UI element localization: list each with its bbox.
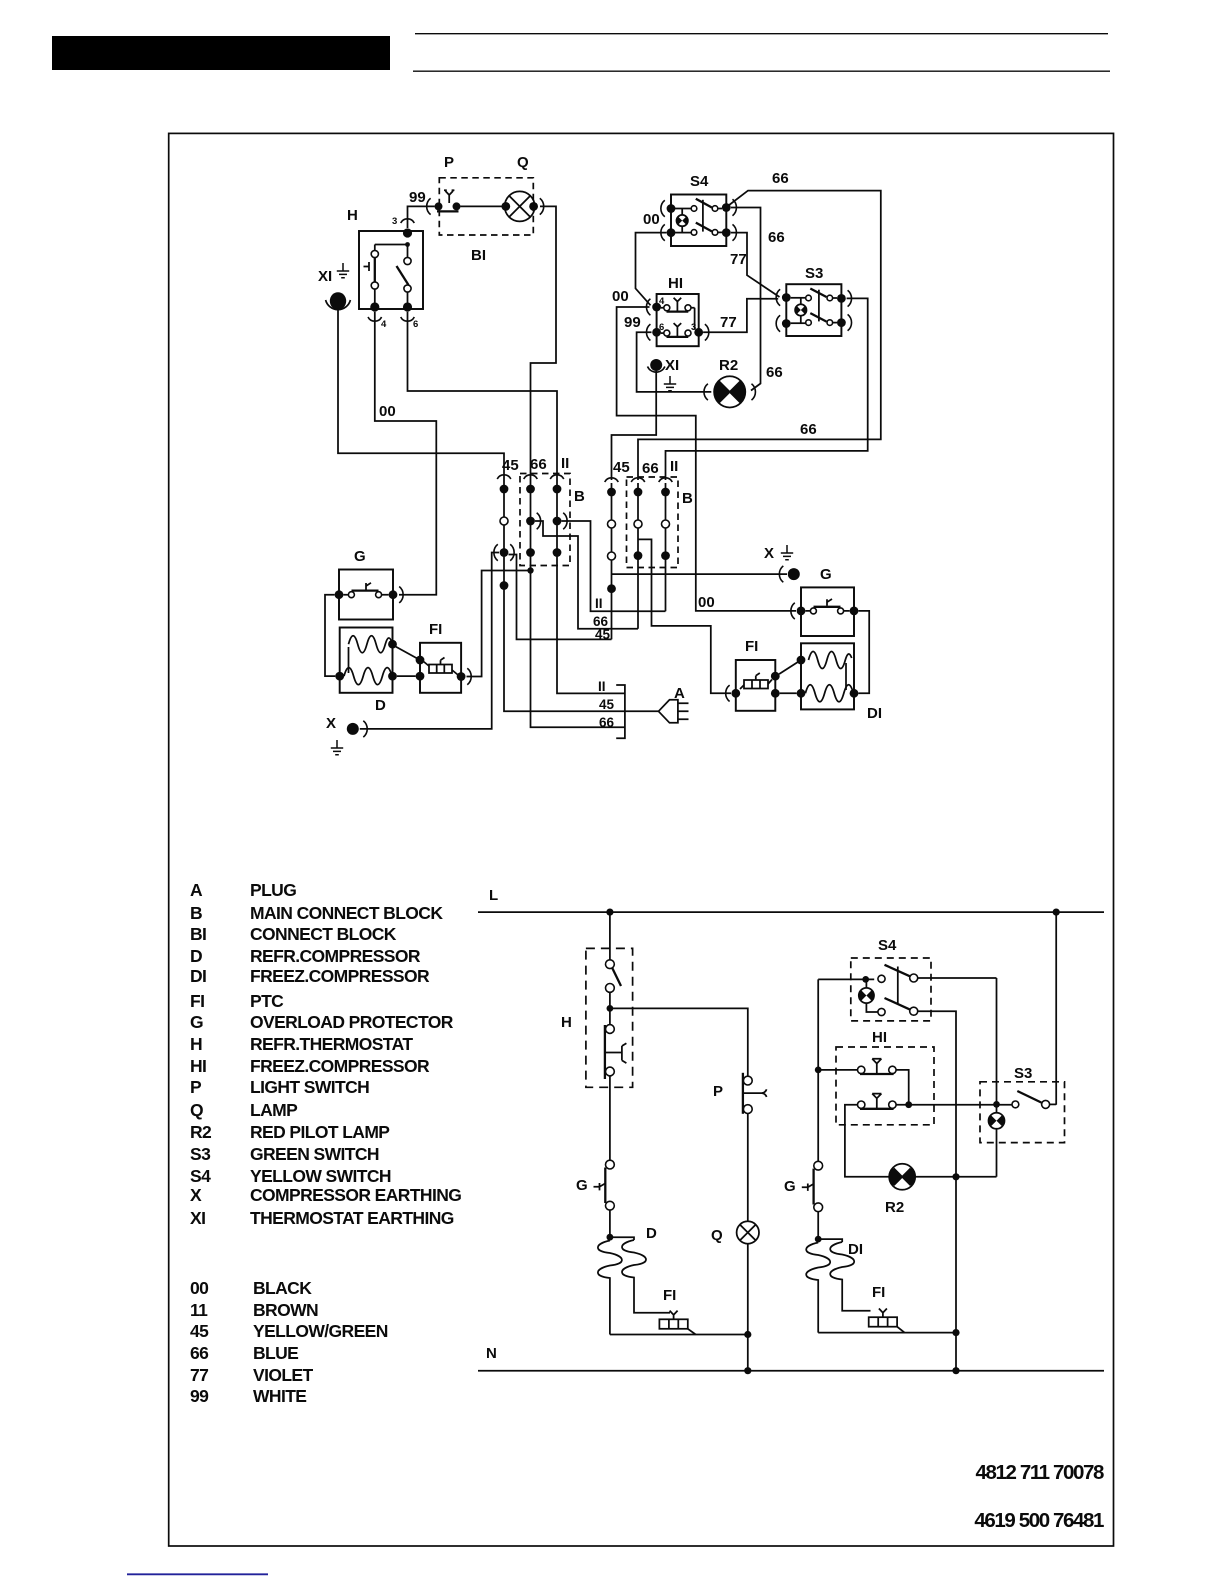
svg-text:66: 66 xyxy=(599,715,615,730)
svg-text:P: P xyxy=(190,1077,202,1097)
svg-text:77: 77 xyxy=(730,251,747,268)
svg-text:4619 500 76481: 4619 500 76481 xyxy=(974,1509,1104,1532)
svg-text:99: 99 xyxy=(409,189,426,206)
thermostat H dashed box xyxy=(586,948,633,1087)
main connect block B left dashed box xyxy=(520,474,570,566)
svg-text:R2: R2 xyxy=(719,357,738,374)
wire 99 HI to R2 xyxy=(637,332,712,392)
svg-text:REFR.THERMOSTAT: REFR.THERMOSTAT xyxy=(250,1034,413,1054)
lamp Q xyxy=(505,191,535,221)
node L right xyxy=(1053,909,1060,916)
wire S3 to 11R column xyxy=(666,298,868,480)
svg-text:FI: FI xyxy=(190,991,204,1011)
svg-text:L: L xyxy=(489,887,498,904)
HI contact bottom xyxy=(664,330,670,336)
66R column xyxy=(631,478,645,482)
svg-text:99: 99 xyxy=(190,1386,209,1406)
svg-text:X: X xyxy=(764,545,774,562)
svg-text:BROWN: BROWN xyxy=(253,1300,318,1320)
S4 pilot lamp xyxy=(859,988,874,1003)
svg-text:BI: BI xyxy=(190,924,206,944)
svg-text:00: 00 xyxy=(643,211,660,228)
FI right PTC element xyxy=(744,680,768,689)
S3 switch xyxy=(1012,1101,1019,1108)
svg-text:REFR.COMPRESSOR: REFR.COMPRESSOR xyxy=(250,946,421,966)
svg-text:THERMOSTAT EARTHING: THERMOSTAT EARTHING xyxy=(250,1208,454,1228)
svg-text:45: 45 xyxy=(613,459,630,476)
HI contact bottom xyxy=(858,1101,865,1108)
svg-text:S3: S3 xyxy=(1014,1065,1032,1082)
svg-text:FI: FI xyxy=(429,621,442,638)
wire H3 to P xyxy=(408,206,435,228)
collector wire to N right xyxy=(818,1332,956,1334)
freezer thermostat HI box xyxy=(657,294,699,346)
S3 terminals xyxy=(782,293,791,302)
svg-text:PLUG: PLUG xyxy=(250,880,296,900)
node P tap xyxy=(607,1005,614,1012)
svg-text:66: 66 xyxy=(772,170,789,187)
svg-text:77: 77 xyxy=(190,1365,208,1385)
light switch P xyxy=(435,202,443,210)
right branch from L xyxy=(1055,912,1057,1105)
H contact lower xyxy=(609,1008,611,1024)
svg-text:H: H xyxy=(561,1014,572,1031)
S4 terminals xyxy=(667,204,676,213)
wire 66R branch to PTC FI right xyxy=(638,539,731,693)
overload protector G left box xyxy=(339,570,393,620)
node D top xyxy=(607,1234,614,1241)
svg-text:Q: Q xyxy=(190,1100,203,1120)
svg-text:B: B xyxy=(190,903,202,923)
S3 pilot lamp xyxy=(989,1113,1005,1129)
wire XI to 45 left column xyxy=(338,310,504,480)
svg-text:66: 66 xyxy=(190,1343,209,1363)
svg-text:DI: DI xyxy=(190,966,206,986)
svg-text:LAMP: LAMP xyxy=(250,1100,298,1120)
PTC FI left box xyxy=(420,643,461,693)
svg-text:00: 00 xyxy=(612,288,629,305)
H terminal 6 xyxy=(403,302,412,311)
svg-text:FREEZ.COMPRESSOR: FREEZ.COMPRESSOR xyxy=(250,1056,430,1076)
svg-text:H: H xyxy=(347,207,358,224)
HI contact top xyxy=(664,305,670,311)
svg-text:66: 66 xyxy=(766,364,783,381)
svg-text:YELLOW SWITCH: YELLOW SWITCH xyxy=(250,1166,391,1186)
svg-text:OVERLOAD PROTECTOR: OVERLOAD PROTECTOR xyxy=(250,1012,454,1032)
svg-text:II: II xyxy=(595,596,603,611)
FI left PTC element xyxy=(429,665,452,674)
S3 switch bottom xyxy=(791,322,806,324)
PTC FI right box xyxy=(736,660,776,711)
collector wire to N left xyxy=(610,1334,748,1336)
red pilot lamp R2 xyxy=(714,376,745,407)
svg-text:XI: XI xyxy=(318,268,332,285)
overload protector G right box xyxy=(801,587,854,636)
svg-text:45: 45 xyxy=(502,457,519,474)
svg-text:G: G xyxy=(784,1178,796,1195)
svg-text:G: G xyxy=(190,1012,203,1032)
svg-text:4812 711 70078: 4812 711 70078 xyxy=(976,1461,1104,1484)
svg-text:FI: FI xyxy=(663,1287,676,1304)
svg-text:HI: HI xyxy=(872,1029,887,1046)
DI winding xyxy=(845,663,847,690)
svg-text:VIOLET: VIOLET xyxy=(253,1365,314,1385)
svg-text:11: 11 xyxy=(190,1300,208,1320)
svg-text:H: H xyxy=(190,1034,202,1054)
wire 66L to PTC FI left xyxy=(467,571,531,677)
node N left xyxy=(744,1367,751,1374)
svg-text:DI: DI xyxy=(848,1241,863,1258)
svg-text:S3: S3 xyxy=(805,265,823,282)
svg-text:Q: Q xyxy=(711,1227,723,1244)
wire 66 S4 to pilot lamp R2 xyxy=(731,208,761,391)
svg-text:S4: S4 xyxy=(690,173,709,190)
H internal contact left xyxy=(371,250,378,257)
H terminal 3 xyxy=(403,228,412,237)
svg-text:II: II xyxy=(670,458,678,475)
45L column xyxy=(497,475,511,479)
svg-text:PTC: PTC xyxy=(250,991,284,1011)
svg-text:B: B xyxy=(682,490,693,507)
svg-text:S4: S4 xyxy=(190,1166,211,1186)
line N xyxy=(478,1370,1104,1372)
wire 00 H4 to overload G xyxy=(375,312,437,595)
svg-text:FI: FI xyxy=(745,638,758,655)
yellow switch S4 dashed box xyxy=(851,958,931,1021)
svg-text:MAIN CONNECT BLOCK: MAIN CONNECT BLOCK xyxy=(250,903,443,923)
node DI top xyxy=(815,1236,822,1243)
thermostat H box xyxy=(359,231,423,309)
svg-text:HI: HI xyxy=(190,1056,206,1076)
wire 77 S4 to S3 xyxy=(731,233,780,297)
wire Q to 66 left column xyxy=(531,206,557,480)
svg-text:45: 45 xyxy=(595,627,611,642)
wire X left to 45L terminal xyxy=(360,553,499,729)
S4 switch top xyxy=(878,975,885,982)
svg-text:P: P xyxy=(444,154,454,171)
svg-text:77: 77 xyxy=(720,314,737,331)
footer blue line xyxy=(127,1573,268,1575)
svg-text:66: 66 xyxy=(800,421,817,438)
svg-text:GREEN SWITCH: GREEN SWITCH xyxy=(250,1144,379,1164)
thermostat earthing XI right xyxy=(650,359,662,371)
svg-text:Q: Q xyxy=(517,154,529,171)
svg-text:R2: R2 xyxy=(190,1122,212,1142)
svg-text:D: D xyxy=(646,1225,657,1242)
svg-text:RED PILOT LAMP: RED PILOT LAMP xyxy=(250,1122,390,1142)
svg-text:COMPRESSOR EARTHING: COMPRESSOR EARTHING xyxy=(250,1185,461,1205)
svg-text:FI: FI xyxy=(872,1284,885,1301)
S4 feed wire xyxy=(818,978,874,980)
svg-text:II: II xyxy=(598,679,606,694)
svg-text:G: G xyxy=(354,548,366,565)
svg-text:X: X xyxy=(190,1185,202,1205)
wire G left to compressor D xyxy=(325,595,335,676)
svg-text:A: A xyxy=(190,880,203,900)
svg-text:B: B xyxy=(574,488,585,505)
S4 switch bottom xyxy=(878,1008,885,1015)
svg-text:XI: XI xyxy=(665,357,679,374)
svg-text:G: G xyxy=(820,566,832,583)
freezer compressor DI box xyxy=(801,643,854,709)
diagram frame xyxy=(169,133,1114,1546)
66L column xyxy=(524,475,538,479)
svg-text:DI: DI xyxy=(867,705,882,722)
wire D to FI left xyxy=(396,647,421,677)
H switch upper xyxy=(609,912,611,960)
S3 pilot lamp xyxy=(795,304,806,315)
freezer thermostat HI dashed box xyxy=(836,1047,934,1125)
H terminal 4 xyxy=(370,302,379,311)
left vertical feed xyxy=(817,979,819,1161)
light switch P branch xyxy=(610,1008,748,1076)
svg-text:S3: S3 xyxy=(190,1144,211,1164)
svg-text:XI: XI xyxy=(190,1208,205,1228)
svg-text:LIGHT SWITCH: LIGHT SWITCH xyxy=(250,1077,369,1097)
connect block BI dashed box xyxy=(439,178,533,235)
svg-text:66: 66 xyxy=(768,229,785,246)
svg-text:45: 45 xyxy=(190,1321,209,1341)
svg-text:S4: S4 xyxy=(878,937,897,954)
wire 66 S4 to right bus and 66R column xyxy=(638,191,881,480)
node L left xyxy=(606,909,613,916)
svg-text:00: 00 xyxy=(379,403,396,420)
svg-text:G: G xyxy=(576,1177,588,1194)
wire P to Q xyxy=(461,205,506,207)
svg-text:3: 3 xyxy=(392,216,397,227)
svg-text:D: D xyxy=(375,697,386,714)
svg-text:R2: R2 xyxy=(885,1199,904,1216)
header rule 2 xyxy=(413,70,1110,72)
svg-text:FREEZ.COMPRESSOR: FREEZ.COMPRESSOR xyxy=(250,966,430,986)
H internal switch right xyxy=(407,245,409,258)
wire jog 11L to 11R xyxy=(561,521,665,611)
svg-text:45: 45 xyxy=(599,697,615,712)
S4 switch bottom xyxy=(675,232,691,234)
D winding xyxy=(348,647,350,673)
cable bracket to plug xyxy=(616,685,625,738)
HI terminals xyxy=(652,303,661,312)
wire X right to 45R xyxy=(612,573,788,575)
11L column xyxy=(550,475,564,479)
wire jog 66L to 66R xyxy=(535,521,638,629)
green switch S3 dashed box xyxy=(980,1082,1065,1143)
svg-text:66: 66 xyxy=(642,460,659,477)
svg-text:BLUE: BLUE xyxy=(253,1343,298,1363)
S3 switch top xyxy=(791,297,806,299)
svg-text:N: N xyxy=(486,1345,497,1362)
line L xyxy=(478,911,1104,913)
svg-text:II: II xyxy=(561,455,569,472)
yellow switch S4 box xyxy=(671,195,726,247)
wire G right to freezer compressor DI xyxy=(858,611,869,693)
wire XI right to 45R column xyxy=(612,371,657,480)
svg-text:X: X xyxy=(326,715,336,732)
11R column xyxy=(659,478,673,482)
wire 00 HI to right overload G xyxy=(617,307,796,611)
node HI outputs xyxy=(905,1101,912,1108)
S4 switch top xyxy=(675,208,691,210)
svg-text:6: 6 xyxy=(413,319,418,330)
svg-text:99: 99 xyxy=(624,314,641,331)
svg-text:00: 00 xyxy=(698,594,715,611)
svg-text:CONNECT BLOCK: CONNECT BLOCK xyxy=(250,924,397,944)
wire H6 to 11 left column xyxy=(408,312,558,480)
45R column xyxy=(605,478,619,482)
svg-text:3: 3 xyxy=(691,322,696,333)
svg-text:66: 66 xyxy=(530,456,547,473)
svg-text:D: D xyxy=(190,946,202,966)
wire 00 S4 to HI xyxy=(636,233,667,306)
node Q collector xyxy=(744,1331,751,1338)
redacted header block xyxy=(52,36,390,70)
svg-text:HI: HI xyxy=(668,275,683,292)
wire FI right to DI xyxy=(779,660,801,693)
green switch S3 box xyxy=(786,284,841,336)
wire 77 HI to S3 xyxy=(703,299,778,333)
svg-text:4: 4 xyxy=(381,319,387,330)
svg-text:P: P xyxy=(713,1083,723,1100)
node N right xyxy=(952,1367,959,1374)
main connect block B right dashed box xyxy=(627,477,679,568)
svg-text:BLACK: BLACK xyxy=(253,1278,312,1298)
refrigerator compressor D box xyxy=(340,628,393,693)
S4 pilot lamp xyxy=(677,215,688,226)
header rule 1 xyxy=(415,33,1108,35)
wire jog 45L to 45R xyxy=(509,555,612,640)
svg-text:00: 00 xyxy=(190,1278,209,1298)
svg-text:BI: BI xyxy=(471,247,486,264)
svg-text:WHITE: WHITE xyxy=(253,1386,306,1406)
svg-text:YELLOW/GREEN: YELLOW/GREEN xyxy=(253,1321,388,1341)
HI contact top xyxy=(818,1069,857,1071)
